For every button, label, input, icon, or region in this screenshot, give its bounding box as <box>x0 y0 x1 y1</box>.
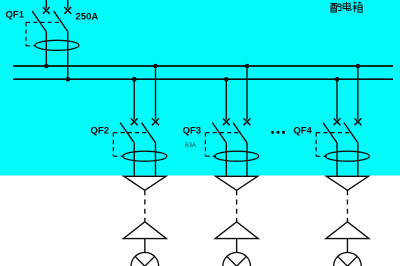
current transformer ellipse QF1 <box>35 40 79 50</box>
breaker QF3 left pole blade <box>212 123 226 143</box>
node QF1 left pole on upper busbar <box>44 64 49 69</box>
breaker QF3 left pole terminal X <box>223 118 230 125</box>
ellipsis dots <box>271 131 274 134</box>
load lamp cross QF3 <box>227 256 247 266</box>
dashed cable run QF3 <box>236 190 238 222</box>
wire QF3 right pole to cable head <box>246 143 248 177</box>
trip unit dashed box QF2 <box>113 133 148 157</box>
cable head down-triangle QF3 <box>216 176 258 190</box>
svg-text:QF4: QF4 <box>293 126 312 137</box>
trip unit dashed box QF1 <box>26 22 61 46</box>
breaker QF2 right pole blade <box>142 123 156 143</box>
breaker QF4 right pole blade <box>344 123 358 143</box>
cable head up-triangle QF4 <box>326 222 369 239</box>
trip unit dashed box QF4 <box>316 133 351 157</box>
load lamp symbol QF4 <box>334 252 362 266</box>
current transformer ellipse QF4 <box>325 151 369 161</box>
breaker QF3 right pole terminal X <box>244 118 251 125</box>
cable head down-triangle QF4 <box>326 176 368 190</box>
cyan panel background <box>0 0 400 176</box>
breaker QF1 left pole terminal X <box>43 7 50 14</box>
load lamp symbol QF2 <box>131 252 159 266</box>
wire QF3 right pole from upper busbar <box>246 66 248 120</box>
wire QF3 to load <box>236 239 238 253</box>
breaker QF4 left pole terminal X <box>334 118 341 125</box>
load lamp cross QF2 <box>135 256 155 266</box>
wire QF4 right pole from upper busbar <box>357 66 359 120</box>
wire QF2 left pole to cable head <box>133 143 135 177</box>
load lamp symbol QF3 <box>223 252 251 266</box>
current transformer ellipse QF3 <box>215 151 259 161</box>
dashed cable run QF4 <box>346 190 348 222</box>
breaker QF1 left pole blade <box>32 11 46 31</box>
wire incoming left pole QF1 <box>45 0 47 8</box>
node QF3 left pole on lower busbar <box>224 77 229 82</box>
node QF4 left pole on lower busbar <box>335 77 340 82</box>
breaker QF3 right pole blade <box>233 123 247 143</box>
breaker QF4 right pole terminal X <box>355 118 362 125</box>
cable head up-triangle QF2 <box>123 222 166 239</box>
svg-text:250A: 250A <box>76 11 99 22</box>
svg-text:QF3: QF3 <box>183 126 201 137</box>
wire QF4 right pole to cable head <box>357 143 359 177</box>
breaker QF2 left pole blade <box>120 123 134 143</box>
wire incoming right pole QF1 <box>67 0 69 8</box>
breaker QF2 right pole terminal X <box>152 118 159 125</box>
current transformer ellipse QF2 <box>123 151 167 161</box>
wire QF2 right pole to cable head <box>155 143 157 177</box>
wire QF3 left pole to cable head <box>225 143 227 177</box>
node QF4 right pole on upper busbar <box>356 64 361 69</box>
title 配电箱 (distribution box) <box>331 4 341 13</box>
node QF2 left pole on lower busbar <box>132 77 137 82</box>
wire QF2 to load <box>144 239 146 253</box>
dashed cable run QF2 <box>144 190 146 222</box>
wire QF2 left pole from lower busbar <box>133 79 135 119</box>
svg-text:QF2: QF2 <box>91 126 109 137</box>
busbar upper <box>13 65 393 67</box>
trip unit dashed box QF3 <box>205 133 240 157</box>
load lamp cross QF4 <box>338 256 358 266</box>
wire QF2 right pole from upper busbar <box>155 66 157 120</box>
wire QF1 left pole to upper busbar <box>45 32 47 66</box>
node QF3 right pole on upper busbar <box>245 64 250 69</box>
svg-text:63A: 63A <box>185 142 197 149</box>
breaker QF2 left pole terminal X <box>131 118 138 125</box>
node QF1 right pole on lower busbar <box>66 77 71 82</box>
breaker QF4 left pole blade <box>323 123 337 143</box>
cable head up-triangle QF3 <box>215 222 258 239</box>
breaker QF1 right pole blade <box>54 11 68 31</box>
cable head down-triangle QF2 <box>124 176 166 190</box>
wire QF3 left pole from lower busbar <box>225 79 227 119</box>
node QF2 right pole on upper busbar <box>153 64 158 69</box>
breaker QF1 right pole terminal X <box>64 7 71 14</box>
svg-text:QF1: QF1 <box>6 9 25 20</box>
wire QF4 left pole from lower busbar <box>336 79 338 119</box>
busbar lower <box>13 78 393 80</box>
wire QF4 left pole to cable head <box>336 143 338 177</box>
wire QF4 to load <box>346 239 348 253</box>
wire QF1 right pole to lower busbar <box>67 32 69 80</box>
